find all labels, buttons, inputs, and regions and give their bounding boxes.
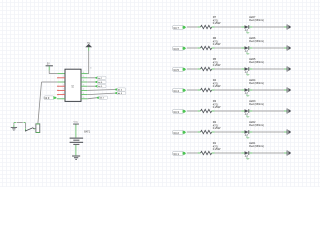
svg-text:V+: V+ xyxy=(246,116,250,119)
svg-text:bit 7: bit 7 xyxy=(174,26,180,30)
svg-text:VCC: VCC xyxy=(73,122,78,124)
svg-text:V+: V+ xyxy=(246,74,250,77)
svg-text:V+: V+ xyxy=(246,158,250,161)
svg-text:bit 2: bit 2 xyxy=(174,131,180,135)
svg-text:bit 0: bit 0 xyxy=(45,97,50,100)
svg-text:V+: V+ xyxy=(246,137,250,140)
svg-text:bit 3: bit 3 xyxy=(174,110,180,114)
svg-text:bit 5: bit 5 xyxy=(174,68,180,72)
svg-text:bit 6: bit 6 xyxy=(174,47,180,51)
svg-text:bit 4: bit 4 xyxy=(174,89,180,93)
svg-text:16: 16 xyxy=(90,68,92,70)
svg-text:bit 1: bit 1 xyxy=(174,152,180,156)
svg-text:V+: V+ xyxy=(246,53,250,56)
svg-text:V+: V+ xyxy=(246,32,250,35)
svg-text:V+: V+ xyxy=(246,95,250,98)
svg-text:BAT1: BAT1 xyxy=(84,130,90,133)
